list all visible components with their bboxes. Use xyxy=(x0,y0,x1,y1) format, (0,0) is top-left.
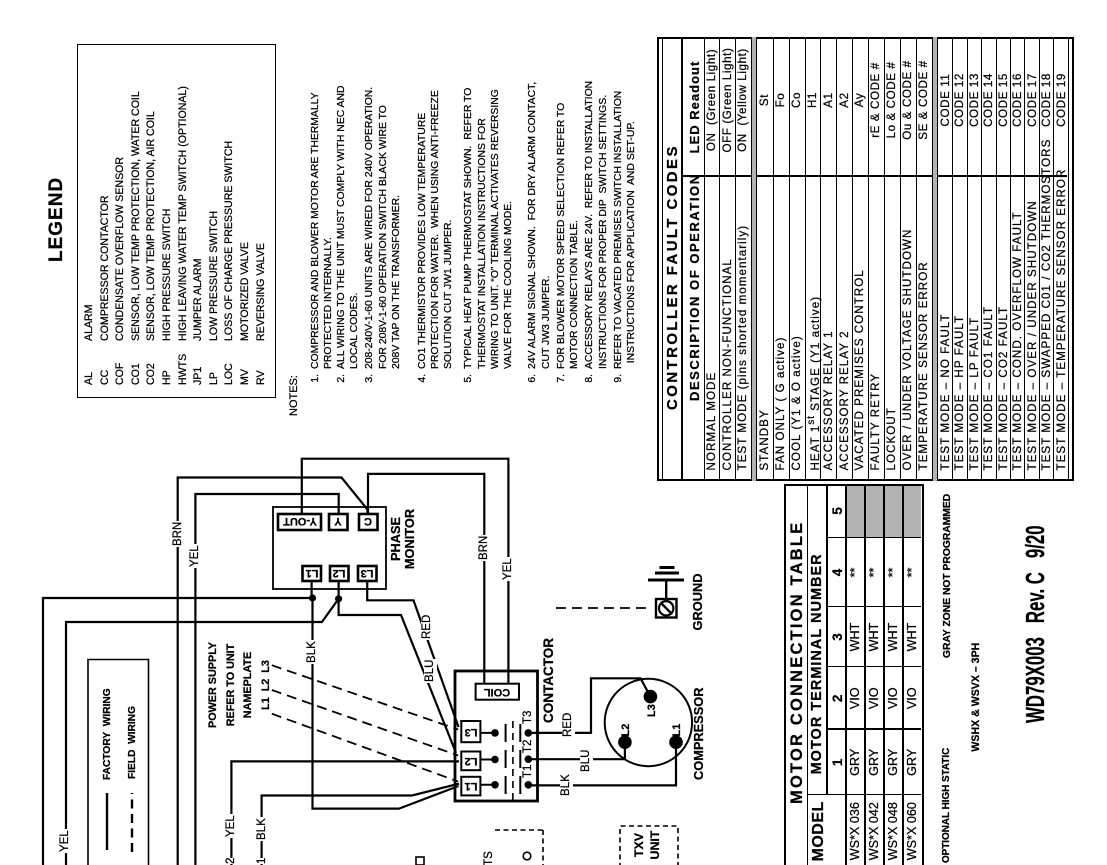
label BRN on C wire xyxy=(172,521,185,547)
motor connection table xyxy=(784,484,929,865)
pin L2 xyxy=(333,568,346,580)
txv unit box xyxy=(620,826,678,865)
label BLK T1 wire xyxy=(560,773,573,797)
contactor terminal T3 xyxy=(522,710,535,725)
wire phase L3 / RED xyxy=(367,581,458,727)
label YEL thermostat wire xyxy=(225,814,238,838)
wire YEL xyxy=(195,494,338,865)
contactor terminal L2 xyxy=(464,755,477,767)
dashed field L3 xyxy=(272,665,458,729)
optional high static xyxy=(941,748,952,863)
coil label xyxy=(484,686,510,698)
dashed ground wire xyxy=(556,607,652,609)
hwts switch fragment xyxy=(416,830,543,865)
pin L1 xyxy=(305,568,318,580)
phase monitor box xyxy=(273,507,386,589)
wire L1 feed xyxy=(43,598,313,865)
notes body xyxy=(309,374,322,396)
controller fault codes table xyxy=(657,37,1074,481)
wire contactor T3 to compressor (RED) xyxy=(528,678,650,733)
ground symbol xyxy=(648,568,684,618)
compressor terminal L2 label xyxy=(620,724,632,737)
notes heading xyxy=(288,375,300,416)
pin C xyxy=(364,516,372,528)
contactor terminal L3 xyxy=(464,726,477,738)
pin Y xyxy=(335,516,342,528)
wire contactor T2 to compressor (BLU) xyxy=(528,742,625,759)
label BLK thermostat wire xyxy=(256,817,269,841)
label RED T3 wire xyxy=(562,712,575,738)
wire phase L2 / BLU xyxy=(339,581,456,753)
label RED phase L3 wire xyxy=(421,614,434,640)
wire YEL thermostat xyxy=(231,761,459,865)
label BLK phase L1 wire xyxy=(306,640,319,664)
compressor xyxy=(605,679,692,766)
legend box xyxy=(77,44,276,398)
wire BLK thermostat xyxy=(262,784,459,865)
pin Y-OUT xyxy=(283,516,317,528)
factory/field text xyxy=(102,688,113,780)
pin L3 xyxy=(361,568,374,580)
wire C to coil (BRN) xyxy=(368,474,484,683)
label YEL on Y wire xyxy=(189,544,202,568)
contactor xyxy=(455,671,538,801)
terminal 2 xyxy=(225,858,238,864)
wire BRN xyxy=(178,478,368,865)
wire phase L1 / BLK xyxy=(312,581,459,809)
compressor terminal L3 label xyxy=(646,704,658,717)
txv label xyxy=(631,827,663,863)
wire Y-OUT to coil (YEL) xyxy=(302,459,509,683)
wire L2 feed xyxy=(66,599,339,865)
factory-field legend box xyxy=(88,660,149,865)
power supply text xyxy=(205,625,275,745)
hwts label xyxy=(483,851,495,865)
label YEL coil wire xyxy=(502,557,515,581)
contactor terminal T1 xyxy=(522,764,535,779)
dashed field L2 xyxy=(272,690,458,756)
legend title xyxy=(46,177,68,262)
label BLU phase L2 wire xyxy=(424,659,437,683)
label BRN coil wire xyxy=(478,535,491,561)
contactor terminal T2 xyxy=(522,739,535,754)
label YEL on feed wire xyxy=(59,829,72,853)
dashed field L1 xyxy=(272,714,458,782)
drawing number xyxy=(1020,525,1051,723)
gray zone not programmed xyxy=(942,494,953,658)
wire contactor T1 to compressor (BLK) xyxy=(528,742,676,785)
ground label xyxy=(690,571,705,633)
junction dots xyxy=(309,594,316,601)
contactor terminal L1 xyxy=(464,780,477,792)
compressor terminal L1 label xyxy=(671,724,683,737)
label BLU T2 wire xyxy=(580,749,593,773)
wshx & wsvx 3ph xyxy=(970,643,982,752)
terminal 1 xyxy=(256,858,269,864)
